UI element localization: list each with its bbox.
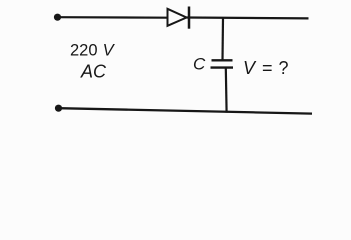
wire bottom [59, 108, 313, 113]
wire capacitor top stub [221, 18, 224, 60]
svg-text:C: C [193, 55, 206, 74]
capacitor C bottom plate [211, 66, 234, 68]
wire top-right segment [187, 16, 309, 19]
svg-text:V: V [243, 58, 257, 78]
diode D1 triangle [168, 9, 187, 26]
wire capacitor bottom stub [225, 68, 228, 113]
svg-text:=: = [262, 58, 273, 78]
svg-text:220 V: 220 V [70, 42, 116, 60]
svg-text:?: ? [279, 58, 289, 78]
capacitor C top plate [212, 59, 233, 61]
diode D1 cathode bar [188, 7, 191, 29]
node dot top-left terminal [54, 14, 61, 21]
node dot bottom-left terminal [55, 105, 62, 112]
wire top-left segment [58, 16, 168, 19]
svg-text:AC: AC [80, 61, 107, 81]
